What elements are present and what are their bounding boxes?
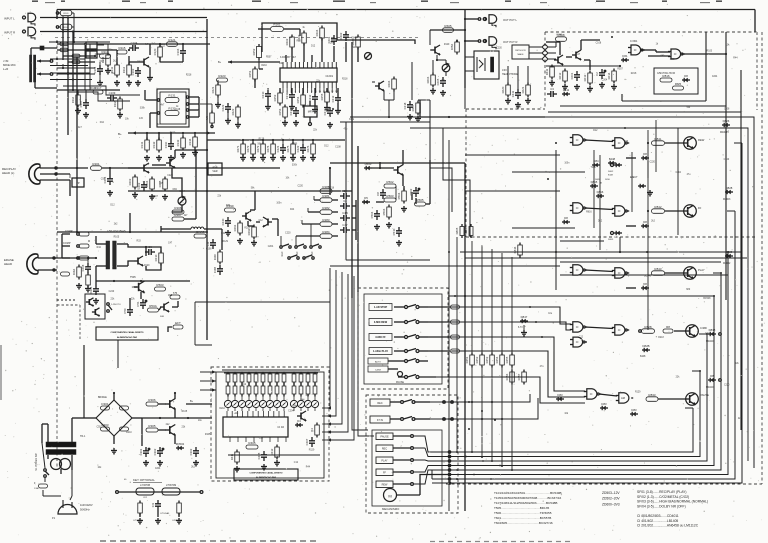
svg-text:R816: R816	[662, 74, 670, 78]
junction dots bus rows2	[468, 401, 470, 403]
svg-text:R502: R502	[386, 180, 394, 184]
ground mute	[551, 80, 553, 83]
wire mesh h275	[560, 274, 728, 276]
svg-text:R305: R305	[148, 424, 156, 428]
svg-text:330k: 330k	[292, 165, 298, 167]
svg-text:R275: R275	[286, 145, 290, 152]
resistor R261	[271, 27, 284, 32]
diode D502	[362, 201, 370, 203]
svg-text:D4: D4	[297, 419, 301, 423]
resistor R115	[117, 50, 127, 54]
wire sw out play	[428, 350, 448, 352]
svg-text:R611: R611	[545, 68, 549, 75]
svg-text:R218: R218	[244, 228, 250, 230]
wire row5 links	[658, 398, 686, 400]
svg-text:CI: CI	[590, 392, 593, 396]
resistor R284	[320, 234, 332, 239]
wire r221	[217, 80, 219, 85]
resistor R221	[216, 85, 221, 95]
inductor bias secondary	[113, 241, 117, 269]
svg-text:C204: C204	[268, 246, 274, 248]
svg-text:b DOLBY: b DOLBY	[280, 56, 291, 59]
resistor R291	[238, 223, 243, 233]
wire L4	[170, 228, 191, 230]
svg-text:SF/02 (1-3)......C/O2/METAL (C: SF/02 (1-3)......C/O2/METAL (C/O2)	[637, 495, 689, 499]
wire diamond wires	[529, 46, 542, 48]
svg-text:1n5: 1n5	[725, 132, 730, 134]
wire reg2 drops	[95, 281, 97, 294]
capacitor C601	[576, 71, 578, 75]
svg-text:10k: 10k	[286, 177, 291, 179]
wire mid bus 1	[57, 231, 207, 233]
wire r5a	[456, 41, 458, 42]
svg-text:D12: D12	[593, 130, 598, 132]
svg-text:HEAD PHONE: HEAD PHONE	[502, 73, 518, 76]
svg-text:R507: R507	[617, 68, 623, 70]
svg-text:C510: C510	[392, 228, 396, 235]
svg-text:D303: D303	[101, 423, 109, 427]
wire long h163	[330, 162, 465, 164]
resistor R503b	[155, 287, 166, 291]
svg-text:OUT PUT L: OUT PUT L	[503, 18, 517, 22]
wire ic bottom drops	[267, 88, 269, 90]
switch REC2	[376, 445, 393, 452]
resistor R141	[145, 140, 150, 150]
pin EQ right 1	[186, 96, 188, 98]
svg-text:R116: R116	[71, 96, 75, 103]
ground rec1	[239, 238, 241, 241]
wire grid h7	[50, 72, 90, 74]
svg-text:47u: 47u	[687, 174, 692, 176]
svg-text:2k2: 2k2	[651, 221, 655, 223]
svg-text:D816: D816	[605, 179, 611, 181]
wire mic amp links	[95, 49, 117, 51]
wire ladder h3	[63, 55, 95, 57]
svg-text:R222: R222	[231, 108, 235, 115]
ic CI201 pins bottom	[282, 82, 284, 88]
svg-text:D802: D802	[608, 171, 614, 173]
svg-text:HEAD: HEAD	[4, 262, 12, 266]
ground tr1	[507, 98, 509, 101]
resistor R621	[526, 85, 531, 95]
svg-text:R282: R282	[322, 206, 330, 210]
wire rec col links	[332, 199, 338, 201]
boundary dashed top	[545, 31, 757, 33]
svg-text:T105/106/502/503/606/607/608..: T105/106/502/503/606/607/608............…	[494, 496, 562, 500]
svg-text:C303: C303	[189, 448, 193, 455]
svg-text:ZD503–12V: ZD503–12V	[602, 491, 620, 495]
inductor L670b	[162, 488, 180, 495]
wire stair fan 1	[430, 117, 452, 212]
wire sw out ff	[428, 336, 448, 338]
resistor R142	[157, 140, 162, 150]
wire bridge leads	[113, 393, 115, 400]
wire tr1 leads	[47, 424, 49, 442]
wire long v465	[464, 163, 466, 511]
wire mesh h155	[465, 154, 560, 156]
diode pill D203	[79, 256, 89, 260]
resistor R451	[470, 355, 475, 365]
svg-text:C107: C107	[79, 100, 83, 107]
svg-text:C/T0/0A5: C/T0/0A5	[160, 512, 170, 515]
ground b2	[158, 155, 160, 158]
ic CI403 pins bottom	[229, 437, 231, 442]
connector OUT PUT L	[478, 18, 481, 21]
svg-text:C220: C220	[297, 186, 303, 188]
svg-text:R271: R271	[236, 145, 240, 152]
wire mid drops	[242, 140, 244, 144]
ground mpx1	[284, 120, 286, 123]
capacitor C211	[291, 91, 293, 95]
svg-text:D5: D5	[364, 196, 368, 200]
svg-text:10: 10	[319, 91, 322, 93]
label canal box 2	[96, 327, 158, 340]
svg-text:4k7: 4k7	[161, 105, 165, 107]
capacitor C110	[170, 140, 172, 144]
junction texture	[464, 295, 466, 297]
svg-text:R221: R221	[211, 86, 215, 93]
svg-text:47u: 47u	[343, 129, 348, 131]
wire osc out right	[161, 228, 170, 230]
svg-text:47u: 47u	[540, 366, 545, 368]
wire v346	[345, 122, 347, 260]
svg-text:C204: C204	[712, 76, 718, 78]
wire out R	[465, 40, 478, 42]
junction dots bus rows	[448, 451, 450, 453]
svg-text:CI/2: CI/2	[143, 497, 148, 499]
switch row REW	[369, 319, 392, 326]
svg-text:D816: D816	[597, 190, 604, 194]
svg-text:R142: R142	[152, 141, 156, 148]
trimmer RT260	[365, 53, 372, 60]
svg-text:R101: R101	[63, 13, 69, 15]
svg-text:C103: C103	[131, 68, 135, 75]
connector diamonds	[542, 44, 548, 50]
svg-text:R621: R621	[521, 86, 525, 93]
svg-text:R454: R454	[495, 356, 499, 363]
svg-text:C220: C220	[724, 159, 730, 161]
wire mic arrows	[37, 59, 41, 62]
svg-text:22k: 22k	[352, 47, 357, 49]
gate row2 FF	[573, 203, 583, 213]
wire reg rail	[142, 417, 212, 419]
ic CI403	[223, 417, 288, 437]
resistor R506	[387, 207, 392, 217]
plug AC	[58, 505, 77, 514]
resistor R102	[60, 24, 72, 30]
wire lc1	[77, 90, 79, 95]
wire grid h1	[57, 67, 95, 69]
svg-text:EJECT: EJECT	[630, 176, 638, 179]
svg-text:R117: R117	[95, 86, 102, 90]
svg-text:PLAY: PLAY	[698, 268, 705, 272]
node mute out	[619, 65, 621, 67]
svg-text:PAUSE: PAUSE	[396, 381, 404, 384]
svg-text:56k: 56k	[686, 107, 691, 109]
wire mesh v656	[655, 120, 657, 172]
svg-text:B+: B+	[218, 61, 222, 64]
block EQ outer	[157, 89, 189, 127]
wire wrap v754	[420, 117, 754, 468]
wire grid h8	[50, 79, 92, 81]
svg-text:C108: C108	[175, 109, 181, 111]
svg-text:AUTO: AUTO	[375, 361, 381, 364]
svg-text:R620: R620	[501, 86, 505, 93]
svg-text:R44: R44	[306, 467, 311, 469]
svg-text:T106: T106	[149, 196, 155, 198]
svg-text:R612: R612	[558, 72, 562, 79]
resistor R272	[251, 144, 256, 154]
svg-text:C605: C605	[436, 78, 440, 85]
svg-text:REW: REW	[382, 484, 388, 487]
svg-text:R/4C: R/4C	[213, 254, 217, 260]
resistor R4A	[77, 267, 82, 277]
wire eq loop	[172, 168, 182, 197]
resistor R201	[91, 166, 102, 171]
svg-text:100n: 100n	[94, 54, 100, 56]
wire osc right	[117, 243, 128, 245]
diode D302	[120, 406, 129, 410]
svg-text:R8: R8	[666, 325, 670, 329]
switch K7 row	[370, 416, 390, 423]
svg-text:C108: C108	[335, 146, 341, 148]
svg-text:R251: R251	[248, 70, 252, 77]
capacitor C203	[143, 181, 145, 185]
svg-text:R816: R816	[586, 212, 592, 214]
wire stair row3	[448, 337, 585, 391]
wire mute links	[566, 56, 572, 58]
svg-text:R129: R129	[444, 44, 450, 46]
svg-text:OUT PUT R: OUT PUT R	[503, 40, 517, 44]
gate row5	[587, 389, 597, 399]
svg-text:100n: 100n	[276, 203, 282, 205]
wire bias chain	[159, 44, 161, 47]
svg-text:C47: C47	[342, 223, 348, 227]
wire v430	[429, 100, 431, 122]
wire out trunk	[464, 10, 466, 89]
wire head lead 1	[40, 167, 88, 169]
wire left dashed boundary	[56, 40, 58, 470]
wire ladder h2	[57, 49, 95, 51]
svg-text:22k: 22k	[313, 130, 318, 132]
wire bias col up	[329, 168, 331, 186]
ground mic amp 3	[137, 80, 139, 83]
svg-text:C210: C210	[261, 91, 265, 98]
svg-text:*: *	[600, 181, 602, 186]
svg-text:AM: AM	[621, 396, 625, 400]
wire canal entry arrows	[327, 406, 331, 409]
svg-text:C8: C8	[376, 192, 380, 196]
wire h edge	[57, 89, 120, 91]
wire dn from 338	[337, 104, 339, 108]
wire psu verticals	[141, 418, 143, 446]
svg-text:COMP: COMP	[63, 242, 71, 245]
resistor R456	[510, 372, 515, 382]
svg-text:2k2: 2k2	[114, 224, 118, 226]
svg-text:R129: R129	[259, 138, 265, 140]
wire long v449	[448, 140, 450, 511]
transistor K1	[88, 299, 90, 305]
transistor T201 osc	[137, 258, 139, 265]
svg-text:C504: C504	[370, 211, 374, 218]
capacitor C104	[129, 47, 133, 49]
wire grid h5	[50, 58, 85, 60]
svg-text:R141: R141	[140, 141, 144, 148]
wire stair row4	[448, 351, 585, 397]
svg-text:CI 40: CI 40	[277, 425, 284, 429]
resistor R455	[510, 355, 515, 365]
svg-text:13: 13	[331, 91, 334, 93]
resistor R612	[563, 71, 568, 81]
wire r101 stubs	[59, 12, 61, 14]
diode D829	[725, 255, 733, 257]
electrolytic C503	[415, 187, 417, 191]
block muting logic	[654, 68, 698, 94]
wire right edge v726	[725, 32, 727, 300]
svg-text:C220: C220	[167, 175, 173, 177]
ground mpx3	[329, 122, 331, 125]
svg-text:4k7: 4k7	[184, 215, 188, 217]
svg-text:D805: D805	[455, 227, 459, 234]
svg-text:COMP: COMP	[65, 230, 73, 233]
wire dash corner	[57, 304, 80, 306]
transformer TR1 core	[46, 442, 76, 447]
resistor R505	[415, 202, 426, 206]
switch row PAUSE2	[388, 368, 398, 370]
capacitor C101	[99, 65, 101, 69]
svg-text:C220: C220	[109, 291, 115, 293]
resistor R206	[172, 210, 184, 214]
wire x212 drop	[211, 10, 213, 20]
wire input R	[40, 31, 207, 33]
svg-text:10u: 10u	[198, 420, 203, 422]
svg-text:L/T0670M: L/T0670M	[166, 485, 176, 487]
svg-text:R44: R44	[300, 399, 305, 401]
capacitor C208	[87, 263, 89, 267]
svg-text:C220: C220	[285, 233, 291, 235]
svg-text:L/50 OSC BIAS: L/50 OSC BIAS	[107, 229, 126, 233]
diode D611	[562, 93, 570, 95]
resistor R503	[384, 198, 396, 202]
capacitor C210	[267, 90, 269, 94]
svg-text:SF/03 (3-6)......HIGH BIAS/NOR: SF/03 (3-6)......HIGH BIAS/NORMAL (NORMA…	[637, 500, 708, 504]
connector OUT PUT R	[478, 40, 481, 43]
resistor R117	[93, 90, 103, 94]
svg-text:330k: 330k	[670, 59, 676, 61]
svg-text:R606: R606	[426, 76, 430, 83]
resistor R4A7	[194, 234, 206, 238]
svg-text:C55: C55	[96, 427, 101, 429]
resistor R4C	[218, 252, 223, 262]
resistor R132	[165, 111, 179, 116]
connector INPUT R	[23, 30, 26, 33]
resistor R283	[320, 222, 332, 227]
rectifier bridge D301-D304	[96, 400, 132, 436]
resistor R305	[146, 428, 158, 432]
svg-text:C223: C223	[221, 104, 225, 111]
resistor R828	[642, 329, 655, 334]
svg-text:R201: R201	[92, 162, 100, 166]
wire bplus drops	[146, 133, 148, 140]
capacitor C303	[195, 447, 197, 451]
svg-text:TP: TP	[76, 181, 80, 185]
resistor R222	[236, 107, 241, 117]
svg-text:R267: R267	[411, 104, 415, 111]
wire long h252	[460, 251, 741, 253]
wire recamp links	[395, 186, 397, 200]
svg-text:C108: C108	[206, 249, 212, 251]
resistor R205	[163, 179, 168, 189]
wire out L	[465, 18, 478, 20]
wire top bus drop right	[754, 10, 756, 33]
diode D301	[101, 406, 110, 410]
ground erase	[78, 283, 80, 286]
svg-text:C/1: C/1	[151, 502, 155, 507]
svg-text:C204: C204	[155, 468, 161, 470]
wire psu bottom	[44, 477, 46, 482]
svg-text:C611: C611	[511, 90, 515, 97]
wire ci201 stub texture	[282, 88, 284, 93]
svg-text:C405: C405	[257, 452, 261, 459]
transducer REC/PLAY head	[29, 164, 40, 184]
resistor R292	[252, 227, 256, 237]
svg-text:R411: R411	[230, 453, 234, 460]
svg-text:C104: C104	[131, 41, 138, 45]
svg-text:680: 680	[686, 289, 691, 291]
svg-text:HEAD (L): HEAD (L)	[2, 171, 14, 175]
svg-text:10k: 10k	[98, 467, 103, 469]
wire v620	[619, 237, 621, 252]
resistor R504	[402, 191, 407, 201]
resistor R111	[115, 65, 120, 75]
resistor R101	[60, 10, 72, 16]
svg-text:D12: D12	[100, 122, 105, 124]
svg-text:1k: 1k	[176, 106, 179, 108]
svg-text:56R: 56R	[160, 316, 164, 318]
svg-text:22k: 22k	[676, 376, 681, 378]
resistor R605	[443, 28, 454, 33]
capacitor C213	[337, 94, 339, 98]
switch row STOP	[369, 304, 392, 311]
wire nest 1	[352, 298, 368, 430]
svg-text:R256: R256	[278, 108, 282, 115]
svg-text:C220: C220	[724, 385, 730, 387]
svg-text:2k2: 2k2	[191, 467, 195, 469]
svg-text:D806: D806	[464, 227, 468, 234]
resistor R453	[490, 355, 495, 365]
wire mesh h262	[560, 261, 721, 263]
wire mute h112	[548, 111, 741, 113]
svg-text:22k: 22k	[131, 299, 136, 301]
wire mic amp rail	[95, 43, 210, 45]
svg-text:CI /801/802/803.......CD4011: CI /801/802/803.......CD4011	[637, 514, 679, 518]
ground key	[139, 518, 141, 521]
svg-text:R105: R105	[205, 434, 211, 436]
resistor R282	[320, 210, 332, 215]
svg-text:10u: 10u	[305, 395, 310, 397]
wire ladder h4	[68, 61, 95, 63]
svg-text:D83: D83	[631, 408, 637, 412]
junction dots mech	[456, 451, 458, 453]
test point TP1	[72, 178, 84, 187]
svg-text:R261: R261	[273, 23, 281, 27]
diode D828	[725, 191, 733, 193]
svg-text:MADE: MADE	[517, 53, 524, 56]
resistor R290	[225, 208, 236, 212]
svg-text:C47: C47	[576, 54, 581, 56]
wire key links	[157, 495, 159, 500]
pill R223	[217, 78, 228, 82]
